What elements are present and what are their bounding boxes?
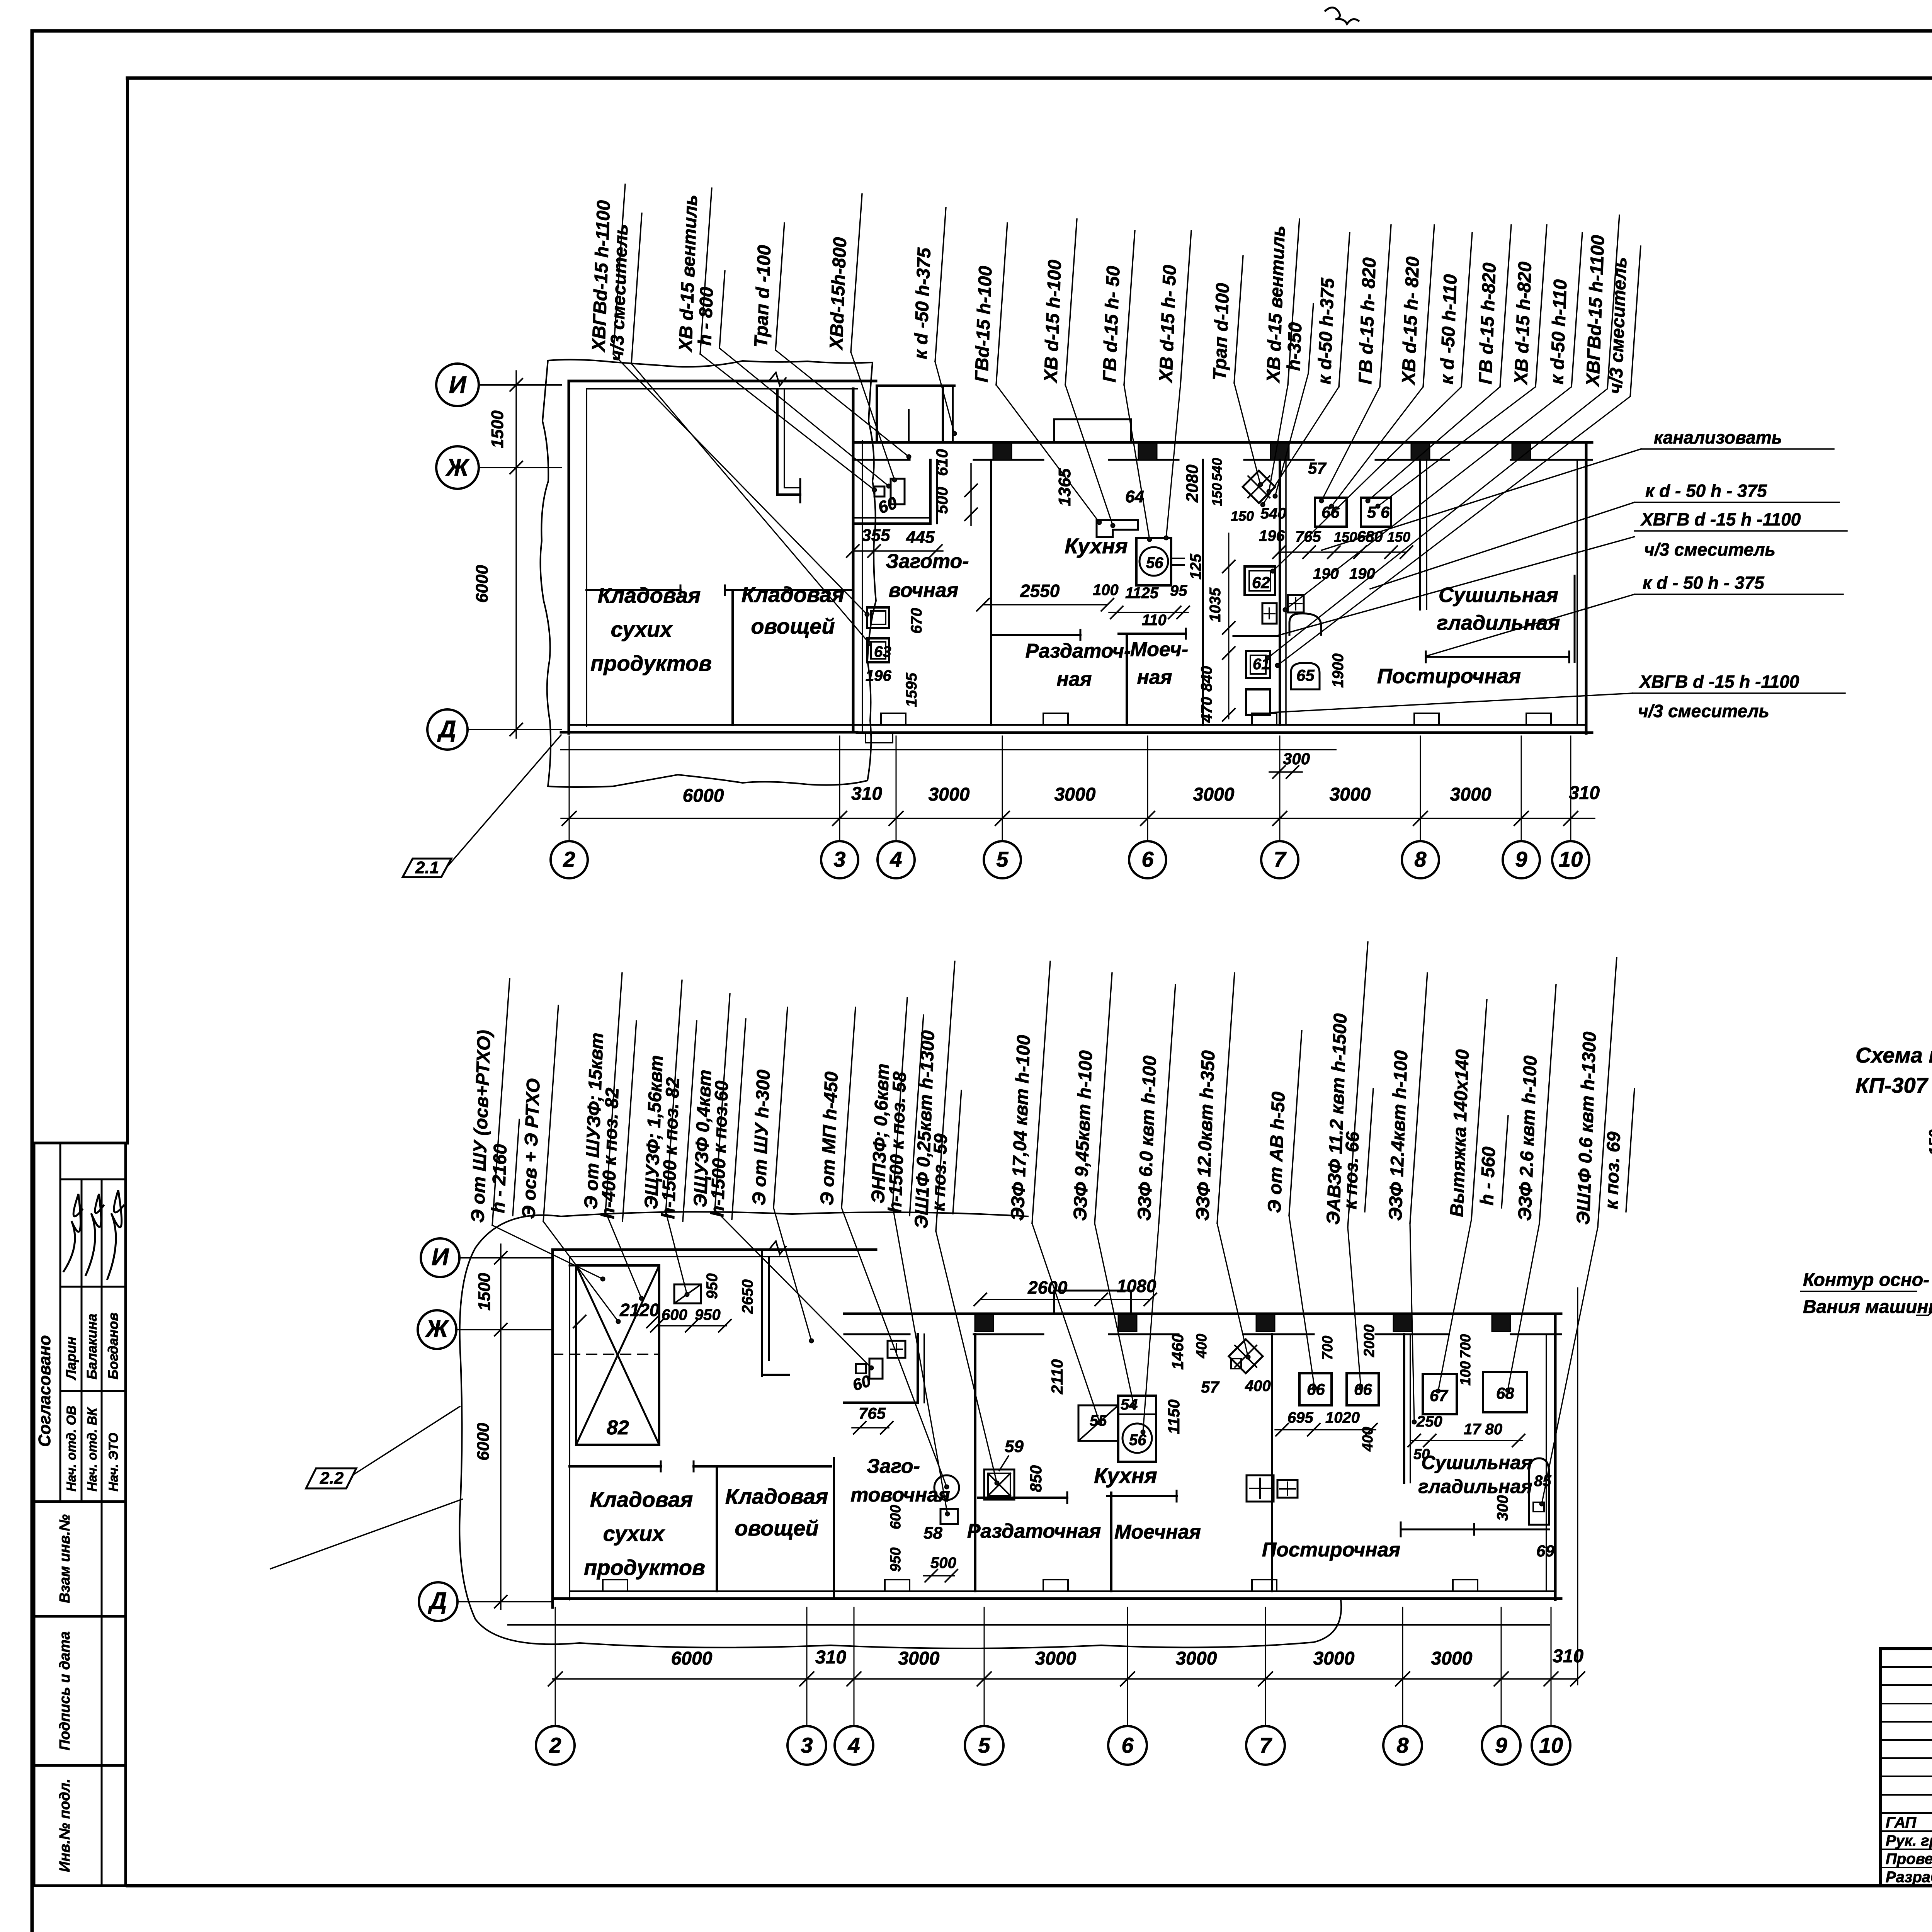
svg-text:ная: ная xyxy=(1137,666,1172,689)
svg-text:Нач. отд. ВК: Нач. отд. ВК xyxy=(85,1407,100,1492)
electric label ЭНПЗФ; 0,6квт xyxy=(868,998,907,1206)
dim line 765 xyxy=(1279,551,1406,553)
zagotovochnaya right wall inner xyxy=(936,460,938,524)
pipe label ХВГВd-15 h-1100 xyxy=(1583,215,1619,389)
axis circle 10 top xyxy=(1552,841,1589,878)
svg-text:62: 62 xyxy=(1252,573,1270,592)
svg-text:Трап d-100: Трап d-100 xyxy=(1209,282,1233,381)
svg-text:700: 700 xyxy=(1458,1334,1474,1359)
svg-text:500: 500 xyxy=(933,487,951,514)
partition wall horizontal b xyxy=(725,589,853,591)
electric label h - 560 xyxy=(1477,1116,1508,1208)
svg-text:6000: 6000 xyxy=(473,565,492,603)
svg-text:сухих: сухих xyxy=(603,1521,666,1546)
pipe label ХВ d-15 h- 50 xyxy=(1156,231,1191,385)
svg-text:8: 8 xyxy=(1396,1733,1409,1757)
exterior ground line bottom xyxy=(508,1624,1549,1626)
equipment 61 inner xyxy=(1250,655,1266,674)
svg-text:к d-50 h-375: к d-50 h-375 xyxy=(1314,277,1338,384)
svg-text:1035: 1035 xyxy=(1207,587,1224,622)
equipment 60 tall box xyxy=(891,479,905,504)
svg-text:66: 66 xyxy=(1354,1380,1372,1398)
svg-text:50: 50 xyxy=(1413,1446,1430,1463)
svg-text:продуктов: продуктов xyxy=(590,651,712,675)
svg-text:h-350: h-350 xyxy=(1284,322,1306,371)
duct bump above corridor xyxy=(1054,419,1131,442)
axis circle И top plan xyxy=(436,364,479,406)
washer 66 a xyxy=(1299,1373,1332,1405)
equipment 61 outer xyxy=(1246,651,1270,678)
svg-text:2600: 2600 xyxy=(1027,1277,1068,1298)
svg-text:Нач. отд. ОВ: Нач. отд. ОВ xyxy=(64,1406,79,1492)
axis circle 3 bottom xyxy=(787,1726,826,1765)
svg-text:540: 540 xyxy=(1260,505,1286,522)
svg-text:4: 4 xyxy=(847,1733,860,1757)
svg-text:к d -50 h-110: к d -50 h-110 xyxy=(1437,274,1461,385)
revision cloud around bottom plan xyxy=(459,1212,1341,1648)
electric label к поз. 69 xyxy=(1601,1088,1634,1212)
svg-text:57: 57 xyxy=(1201,1378,1219,1396)
vestibule left wall xyxy=(876,386,878,441)
electric label ЭШ1Ф 0,25квт h-1300 xyxy=(911,961,955,1231)
pipe label ГВ d-15 h- 50 xyxy=(1099,231,1135,385)
equipment 62 outer xyxy=(1245,566,1275,595)
flag 2.1 leader xyxy=(448,735,561,866)
svg-text:2: 2 xyxy=(549,1733,561,1757)
left wall outer xyxy=(551,1250,554,1607)
electric label ЭЗФ 17,04 квт h-100 xyxy=(1007,961,1050,1223)
shaft 82 box xyxy=(576,1265,659,1445)
svg-text:Вания машины: Вания машины xyxy=(1803,1297,1932,1317)
svg-text:63: 63 xyxy=(874,643,891,660)
dim line 2600-1080 xyxy=(980,1299,1150,1300)
svg-text:100: 100 xyxy=(1458,1361,1474,1386)
electric label h-1500 к поз.60 xyxy=(707,1019,746,1219)
axis circle Д bottom xyxy=(419,1582,457,1621)
plus box bottom b xyxy=(1277,1480,1298,1498)
right guide line bottom plan xyxy=(1577,1288,1578,1685)
svg-text:гладильная: гладильная xyxy=(1437,611,1560,634)
svg-text:И: И xyxy=(449,372,467,398)
pipe label h - 800 xyxy=(695,271,725,348)
foundation pad xyxy=(1252,713,1277,725)
axis circle 5 top xyxy=(984,841,1021,878)
foundation pad xyxy=(881,713,906,725)
axis circle 9 top xyxy=(1503,841,1540,878)
axis circle 5 bottom xyxy=(965,1726,1003,1765)
foundation pad bottom plan xyxy=(1453,1580,1478,1591)
svg-text:950: 950 xyxy=(704,1273,721,1299)
plumbing room wall top plan xyxy=(1279,460,1281,725)
pipe label Трап d-100 xyxy=(1209,256,1243,383)
stamp signature squiggle xyxy=(107,1190,124,1279)
washbasin xyxy=(888,1341,905,1358)
svg-text:ная: ная xyxy=(1057,668,1092,690)
svg-text:65: 65 xyxy=(1296,666,1315,684)
svg-text:к d - 50 h - 375: к d - 50 h - 375 xyxy=(1643,573,1765,593)
svg-text:КП-307 (поз. 67 ) к фундамен: КП-307 (поз. 67 ) к фундаменту xyxy=(1855,1073,1932,1097)
svg-text:3000: 3000 xyxy=(1431,1648,1473,1669)
svg-text:3: 3 xyxy=(801,1733,813,1757)
top wall inner xyxy=(570,1256,857,1257)
svg-text:Схема крепления барабана с: Схема крепления барабана сушильного xyxy=(1855,1043,1932,1067)
axis circle 9 bottom xyxy=(1482,1726,1520,1765)
svg-text:Рук. гр.: Рук. гр. xyxy=(1886,1832,1932,1849)
electric label h-1500 к поз. 82 xyxy=(658,1021,697,1221)
foundation pad bottom plan xyxy=(1043,1580,1068,1591)
axis circle 8 top xyxy=(1402,841,1439,878)
svg-text:150: 150 xyxy=(1209,483,1225,506)
equipment box with diagonal xyxy=(674,1284,701,1303)
svg-text:гладильная: гладильная xyxy=(1418,1476,1532,1497)
svg-text:695: 695 xyxy=(1287,1409,1313,1426)
vestibule top wall xyxy=(877,384,954,387)
stove burner circle xyxy=(1139,547,1168,576)
svg-text:Кухня: Кухня xyxy=(1094,1463,1157,1488)
L wall hook xyxy=(777,493,800,496)
svg-text:400: 400 xyxy=(1194,1334,1210,1359)
left vertical dim line xyxy=(515,371,517,738)
svg-text:10: 10 xyxy=(1539,1733,1563,1757)
right wall inner xyxy=(1577,460,1578,725)
wall boxes 63 on storage right wall xyxy=(867,607,889,628)
svg-text:Провер.: Провер. xyxy=(1886,1850,1932,1867)
dryer 68 xyxy=(1483,1372,1527,1412)
svg-text:3000: 3000 xyxy=(1450,784,1492,805)
vestibule wall bottom plan xyxy=(761,1250,763,1376)
bottom wall inner left block xyxy=(569,724,857,726)
inner frame bottom xyxy=(128,1884,1932,1888)
electric label ЭЩУЗФ 0,4квт xyxy=(690,994,730,1210)
top wall outer of storage block xyxy=(569,380,876,383)
staple mark top center xyxy=(1325,7,1359,24)
bottom wall outer strip xyxy=(857,731,1592,734)
svg-text:Ж: Ж xyxy=(425,1316,449,1342)
exterior ground line xyxy=(561,749,1336,750)
kitchen left wall upper xyxy=(990,460,992,634)
svg-text:150: 150 xyxy=(1926,1129,1932,1155)
svg-text:2: 2 xyxy=(563,847,575,871)
equipment 60 small (bottom) xyxy=(856,1364,866,1373)
svg-text:1080: 1080 xyxy=(1117,1276,1156,1296)
svg-text:1900: 1900 xyxy=(1330,653,1347,688)
axis circle Ж top plan xyxy=(436,446,479,489)
electric label ЭЩУЗФ; 1,56квт xyxy=(641,980,682,1212)
svg-text:3000: 3000 xyxy=(1176,1648,1217,1669)
svg-text:540: 540 xyxy=(1209,458,1225,481)
svg-text:950: 950 xyxy=(888,1548,904,1572)
electric label ЭАВЗФ 11.2 квт h-1500 xyxy=(1323,942,1368,1227)
svg-text:ГВ d-15 h- 50: ГВ d-15 h- 50 xyxy=(1099,265,1124,383)
zagotovochnaya bottom wall xyxy=(854,522,930,525)
washer 66 b xyxy=(1347,1373,1379,1405)
electric label ЭЗФ 6.0 квт h-100 xyxy=(1134,985,1175,1223)
axis circle 6 bottom xyxy=(1108,1726,1147,1765)
svg-text:1125: 1125 xyxy=(1125,585,1159,602)
svg-text:6000: 6000 xyxy=(474,1423,493,1461)
svg-text:канализовать: канализовать xyxy=(1654,427,1782,447)
electric label Э от ШУЗФ; 15квт xyxy=(581,973,622,1212)
pipe label ХВ d-15 вентиль xyxy=(1263,219,1299,385)
svg-text:овощей: овощей xyxy=(735,1516,818,1540)
svg-text:h - 2160: h - 2160 xyxy=(488,1144,511,1214)
right label leaders xyxy=(1321,449,1641,550)
svg-text:Моеч-: Моеч- xyxy=(1130,638,1188,661)
svg-text:Инв.№ подл.: Инв.№ подл. xyxy=(57,1779,73,1872)
zagotovochnaya right wall xyxy=(917,1334,919,1403)
svg-text:150: 150 xyxy=(1231,508,1254,524)
sink counter edge xyxy=(1233,635,1280,637)
svg-text:150: 150 xyxy=(1387,529,1410,545)
svg-text:69: 69 xyxy=(1536,1542,1554,1560)
svg-text:Кладовая: Кладовая xyxy=(725,1484,828,1509)
ironing rail bottom xyxy=(1401,1529,1549,1531)
right wall inner bottom xyxy=(1546,1334,1547,1591)
foundation pad xyxy=(1526,713,1551,725)
svg-text:3000: 3000 xyxy=(1035,1648,1077,1669)
sushilnaya partition bottom xyxy=(1403,1334,1405,1483)
svg-text:2080: 2080 xyxy=(1183,464,1202,503)
electric label h-1500 к поз. 58 xyxy=(885,1015,923,1216)
svg-text:1460: 1460 xyxy=(1168,1334,1187,1370)
svg-text:190: 190 xyxy=(1313,565,1339,582)
partition wall horizontal a xyxy=(587,589,680,591)
pipe label ХВd-15h-800 xyxy=(826,194,862,352)
axis stalks top plan xyxy=(569,736,570,841)
svg-text:h - 800: h - 800 xyxy=(695,286,717,346)
svg-text:Раздаточ-: Раздаточ- xyxy=(1026,640,1131,662)
svg-text:196: 196 xyxy=(866,667,891,684)
bottom wall inner xyxy=(570,1590,1555,1592)
svg-text:190: 190 xyxy=(1349,565,1375,582)
svg-text:Э от АВ h-50: Э от АВ h-50 xyxy=(1264,1091,1289,1213)
svg-text:к d -50 h-375: к d -50 h-375 xyxy=(910,247,935,359)
inner frame left upper xyxy=(126,78,129,1143)
svg-text:к поз. 69: к поз. 69 xyxy=(1601,1131,1624,1209)
washer box 56 xyxy=(1361,498,1391,527)
stamp signature squiggle xyxy=(86,1194,104,1275)
vestibule right wall inner xyxy=(952,386,954,441)
duct bump above corridor bottom xyxy=(1054,1291,1131,1314)
svg-text:1500: 1500 xyxy=(488,410,507,448)
pipe label h-350 xyxy=(1284,304,1313,373)
svg-text:1365: 1365 xyxy=(1055,468,1074,506)
svg-text:Постирочная: Постирочная xyxy=(1262,1539,1400,1561)
electric label ЭЗФ 9,45квт h-100 xyxy=(1070,973,1112,1223)
axis circle 3 top xyxy=(821,841,858,878)
axis circle И bottom xyxy=(421,1238,459,1277)
svg-text:Кухня: Кухня xyxy=(1065,534,1128,558)
left wall outer xyxy=(568,381,570,733)
svg-text:470: 470 xyxy=(1198,697,1215,723)
svg-text:1020: 1020 xyxy=(1325,1409,1360,1426)
svg-text:310: 310 xyxy=(1553,1646,1583,1667)
svg-text:125: 125 xyxy=(1187,554,1204,580)
svg-text:196: 196 xyxy=(1259,527,1285,544)
postirochnaya left wall bottom xyxy=(1271,1334,1273,1591)
svg-text:400: 400 xyxy=(1360,1427,1376,1452)
svg-text:ХВ d-15 h- 50: ХВ d-15 h- 50 xyxy=(1156,264,1180,384)
moechnaya left wall xyxy=(1126,635,1128,725)
svg-text:Подпись и дата: Подпись и дата xyxy=(57,1631,73,1750)
partition right of veg storeroom xyxy=(833,1458,835,1598)
plus box b xyxy=(1288,595,1304,612)
inner frame top xyxy=(128,77,1932,80)
main title block xyxy=(1881,1649,1932,1886)
svg-text:7: 7 xyxy=(1274,847,1287,871)
foundation pad xyxy=(1043,713,1068,725)
right wall of storage block xyxy=(852,389,855,732)
svg-text:700: 700 xyxy=(1320,1336,1336,1360)
electric label к поз. 59 xyxy=(928,1090,961,1214)
svg-text:Согласовано: Согласовано xyxy=(35,1335,54,1447)
axis circle 4 bottom xyxy=(835,1726,873,1765)
electric label ЭЗФ 2.6 квт h-100 xyxy=(1515,985,1556,1223)
zagotovochnaya bottom wall inner xyxy=(854,517,930,519)
electric label Вытяжка 140х140 xyxy=(1447,1000,1487,1219)
top wall inner xyxy=(587,388,857,389)
electric label Э осв + Э РТХО xyxy=(519,1005,558,1221)
electric label Э от ШУ h-300 xyxy=(749,1007,787,1208)
svg-text:Ж: Ж xyxy=(445,454,470,481)
razdatochnaya counter bottom xyxy=(978,1497,1067,1499)
electric label Э от МП h-450 xyxy=(817,1007,855,1208)
svg-text:400: 400 xyxy=(1245,1378,1271,1395)
svg-text:вочная: вочная xyxy=(889,579,959,602)
svg-text:1500: 1500 xyxy=(475,1273,494,1311)
moechnaya counter bottom xyxy=(1107,1495,1177,1497)
break mark on wall bottom xyxy=(769,1241,786,1254)
pipe label к d -50 h-375 xyxy=(910,207,946,362)
svg-text:Д: Д xyxy=(428,1588,447,1614)
moechnaya wall bottom xyxy=(1110,1493,1112,1591)
svg-text:ГВd-15 h-100: ГВd-15 h-100 xyxy=(971,265,996,383)
svg-text:3000: 3000 xyxy=(1054,784,1096,805)
razdatochnaya left wall xyxy=(990,634,992,725)
svg-text:сухих: сухих xyxy=(611,617,673,641)
pipe label ХВ d-15 h-100 xyxy=(1041,219,1077,385)
svg-text:8: 8 xyxy=(1414,847,1427,871)
svg-text:3000: 3000 xyxy=(929,784,970,805)
round equipment xyxy=(934,1475,959,1500)
arch equipment xyxy=(1289,614,1321,635)
axis circle Д top plan xyxy=(427,709,468,750)
svg-text:4: 4 xyxy=(889,847,902,871)
partition between storerooms xyxy=(731,592,734,725)
svg-text:И: И xyxy=(432,1244,449,1270)
svg-text:2.1: 2.1 xyxy=(415,858,439,877)
L wall vertical xyxy=(776,389,779,495)
foundation pad xyxy=(1414,713,1439,725)
svg-text:ГВ d-15 h-820: ГВ d-15 h-820 xyxy=(1475,262,1500,385)
storeroom counter a xyxy=(570,1465,661,1468)
equipment 62 inner xyxy=(1249,571,1270,591)
svg-text:Балакина: Балакина xyxy=(84,1314,100,1379)
plus box a xyxy=(1262,603,1277,624)
svg-text:9: 9 xyxy=(1495,1733,1507,1757)
svg-text:9: 9 xyxy=(1515,847,1527,871)
svg-text:ГАП: ГАП xyxy=(1886,1814,1917,1831)
revision cloud around storage block xyxy=(540,360,876,787)
plus box bottom a xyxy=(1247,1475,1274,1502)
axis circle 7 bottom xyxy=(1246,1726,1285,1765)
right wall inner xyxy=(862,440,863,732)
pipe label ХВ d-15 h-820 xyxy=(1511,225,1547,387)
dryer 67 xyxy=(1423,1374,1457,1414)
bottom wall outer xyxy=(553,1597,1561,1600)
svg-text:ХВ d-15 h-100: ХВ d-15 h-100 xyxy=(1041,259,1065,384)
svg-text:57: 57 xyxy=(1308,459,1327,477)
svg-text:к поз. 66: к поз. 66 xyxy=(1340,1131,1363,1209)
left wall inner xyxy=(569,1257,570,1600)
electric label h - 2160 xyxy=(488,1119,519,1216)
moechnaya counter xyxy=(1119,633,1186,635)
svg-text:3000: 3000 xyxy=(898,1648,940,1669)
svg-text:Кладовая: Кладовая xyxy=(742,582,844,607)
svg-text:Сушильная: Сушильная xyxy=(1421,1452,1532,1473)
svg-text:3: 3 xyxy=(833,847,845,871)
svg-text:ХВГВ d -15 h -1100: ХВГВ d -15 h -1100 xyxy=(1638,672,1799,692)
storeroom counter b xyxy=(694,1465,831,1468)
svg-text:2650: 2650 xyxy=(739,1279,756,1314)
svg-text:100: 100 xyxy=(1093,582,1119,599)
svg-text:300: 300 xyxy=(1494,1495,1511,1521)
bottom wall outer left block xyxy=(561,731,857,734)
svg-text:3000: 3000 xyxy=(1330,784,1371,805)
svg-text:3000: 3000 xyxy=(1313,1648,1355,1669)
svg-text:950: 950 xyxy=(695,1306,721,1323)
kitchen unit bottom plan xyxy=(1078,1405,1118,1441)
axis circle 4 top xyxy=(878,841,915,878)
equipment 60 small box xyxy=(874,486,884,497)
electric label к поз. 66 xyxy=(1340,1088,1373,1212)
stove unit 56 xyxy=(1136,538,1171,585)
equipment 65 xyxy=(1291,663,1320,689)
svg-text:5: 5 xyxy=(978,1733,990,1757)
right wall outer xyxy=(1585,442,1588,733)
svg-text:310: 310 xyxy=(1569,783,1600,803)
floor trap diamond 57 bottom xyxy=(1229,1339,1263,1373)
svg-text:6000: 6000 xyxy=(683,786,724,806)
svg-text:500: 500 xyxy=(930,1554,956,1571)
equipment 60 tall (bottom) xyxy=(869,1359,883,1379)
svg-text:3000: 3000 xyxy=(1193,784,1235,805)
pipe label к d-50 h-375 xyxy=(1314,233,1350,387)
detail flag 2.2 xyxy=(306,1468,356,1488)
svg-text:h - 560: h - 560 xyxy=(1477,1146,1499,1206)
svg-text:Ларин: Ларин xyxy=(63,1337,79,1381)
svg-text:Раздаточная: Раздаточная xyxy=(967,1520,1101,1543)
svg-text:Богданов: Богданов xyxy=(105,1313,121,1379)
axis circle 6 top xyxy=(1129,841,1166,878)
cloud pointer line xyxy=(270,1499,462,1569)
svg-text:1150: 1150 xyxy=(1165,1400,1183,1434)
corridor columns bottom xyxy=(975,1315,993,1332)
svg-text:Сушильная: Сушильная xyxy=(1439,583,1558,607)
svg-text:85: 85 xyxy=(1534,1473,1551,1490)
axis Д line xyxy=(468,729,561,730)
zagotovochnaya right wall xyxy=(929,460,932,524)
svg-text:2.2: 2.2 xyxy=(320,1469,344,1488)
electric label h-400 к поз. 82 xyxy=(598,1021,636,1221)
svg-text:ХВ d-15 h-820: ХВ d-15 h-820 xyxy=(1511,261,1536,386)
svg-text:ч/3 смеситель: ч/3 смеситель xyxy=(1638,701,1769,721)
svg-text:2120: 2120 xyxy=(619,1300,660,1320)
pipe label Трап d -100 xyxy=(751,223,784,350)
axis circle 8 bottom xyxy=(1383,1726,1422,1765)
axis circle 10 bottom xyxy=(1532,1726,1570,1765)
floor trap diamond 57 xyxy=(1243,471,1275,503)
